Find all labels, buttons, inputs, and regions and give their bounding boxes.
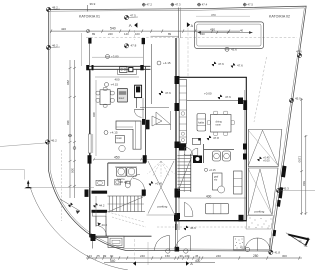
svg-text:240: 240: [140, 254, 145, 258]
survey marker west 47.5: [46, 44, 60, 50]
dim 400 inside house01: [95, 76, 139, 78]
pool lane arrow: [198, 32, 253, 34]
svg-text:KATOIKIA 01: KATOIKIA 01: [79, 15, 100, 19]
marker near terrace right: [124, 43, 136, 48]
svg-text:44.0: 44.0: [102, 223, 108, 227]
section arrow A top house02: [187, 22, 190, 27]
interior wall bath: [108, 162, 146, 164]
black wall band hall: [92, 210, 108, 213]
svg-text:400: 400: [195, 259, 201, 263]
door arc pantry: [134, 109, 144, 111]
dashed canopy house01: [108, 212, 146, 227]
south wall columns house02: [174, 215, 179, 222]
divider columns: [175, 76, 180, 84]
pool dim ticks: [217, 31, 219, 34]
wc door arc house01: [133, 179, 145, 191]
south boundary wall circles: [166, 249, 170, 253]
svg-text:47.6: 47.6: [218, 62, 224, 66]
svg-text:KATOIKIA 02: KATOIKIA 02: [269, 14, 290, 18]
section arrow A bottom house02: [186, 261, 189, 266]
svg-text:240: 240: [200, 32, 205, 36]
right dim lines: [301, 98, 303, 215]
svg-text:41.8: 41.8: [275, 250, 281, 254]
svg-text:+0.45: +0.45: [155, 182, 163, 186]
stairs house02: [178, 156, 191, 191]
house01 left wall: [89, 69, 91, 134]
svg-text:400: 400: [206, 195, 212, 199]
NE column living: [146, 120, 150, 130]
stairs house01: [109, 196, 141, 212]
dashed canopy line south: [157, 226, 250, 228]
svg-text:47.2: 47.2: [147, 3, 153, 7]
black wall segment on boundary: [281, 166, 287, 178]
black appliance house02: [179, 144, 186, 151]
svg-text:47.6: 47.6: [225, 95, 231, 99]
street kerb arc: [30, 187, 128, 270]
svg-text:300: 300: [70, 168, 74, 173]
svg-text:300: 300: [282, 254, 287, 258]
house01 left window: [89, 134, 92, 153]
stipple ramp: [249, 218, 273, 229]
kitchen counters house02: [179, 80, 186, 144]
tv table house01: [116, 135, 125, 143]
street lamp: [0, 170, 25, 180]
svg-text:+3.80: +3.80: [111, 55, 119, 59]
svg-text:47.8: 47.8: [131, 43, 137, 47]
svg-text:540: 540: [110, 259, 116, 263]
house01 top wall: [88, 65, 151, 67]
markers house02: [212, 62, 224, 66]
dim 450 living: [93, 158, 143, 160]
pantry corridor walls: [136, 98, 138, 108]
svg-text:470: 470: [210, 27, 215, 31]
marker side passage: [157, 61, 171, 65]
svg-text:parking: parking: [255, 210, 265, 214]
marker mid house02: [207, 136, 219, 140]
dining chair bottom: [103, 104, 107, 107]
marker south: [184, 226, 196, 230]
terrace column right: [142, 38, 145, 44]
svg-text:89: 89: [103, 254, 107, 258]
svg-text:+0.00: +0.00: [263, 159, 270, 163]
closet under stairs: [92, 213, 106, 216]
party wall divider: [175, 38, 177, 230]
dashed parking street line: [61, 150, 63, 221]
shower house02: [193, 156, 202, 164]
survey marker right slant top: [296, 50, 302, 58]
house02 right wall: [245, 77, 247, 221]
svg-text:90: 90: [110, 254, 114, 258]
survey marker west low: [0, 139, 57, 147]
fridge house01: [135, 85, 142, 97]
boundary divider fence between plots: [178, 8, 180, 39]
marker right slant low: [276, 187, 315, 193]
column left mid: [88, 155, 92, 163]
terrace column left: [88, 38, 91, 44]
entrance door arc house01: [96, 226, 107, 237]
svg-text:100: 100: [135, 32, 140, 36]
L sofa house01: [116, 121, 141, 149]
porch steps house01: [108, 236, 124, 247]
site boundary inner: [50, 8, 304, 250]
svg-text:43.6: 43.6: [231, 48, 237, 52]
dining chairs left: [96, 91, 100, 95]
house01 kitchen counter: [118, 69, 137, 74]
parking3 strip: [147, 158, 177, 160]
svg-text:420: 420: [61, 27, 66, 31]
survey marker top-left corner: [46, 6, 60, 12]
threshold triangles: [152, 116, 162, 126]
dim 400 house02: [178, 197, 246, 199]
pool outer: [195, 22, 264, 49]
svg-text:540: 540: [110, 27, 116, 31]
house01 top-left columns: [86, 65, 89, 70]
twin basins house01: [117, 168, 127, 177]
column right stairs: [142, 190, 146, 196]
survey marker top-right: [243, 2, 253, 6]
parking area 2: [248, 168, 278, 215]
svg-text:47.6: 47.6: [296, 50, 302, 54]
svg-text:+4.15: +4.15: [163, 61, 171, 65]
svg-text:89: 89: [92, 32, 96, 36]
svg-text:kathis: kathis: [198, 122, 205, 125]
wardrobe house02: [234, 171, 243, 194]
terrace spot marker: [106, 55, 119, 59]
house02 south wall: [174, 220, 247, 222]
svg-text:280: 280: [253, 254, 259, 258]
svg-text:150: 150: [165, 254, 170, 258]
svg-text:parking: parking: [158, 205, 168, 209]
svg-text:47.5: 47.5: [248, 2, 254, 6]
svg-text:860: 860: [302, 181, 306, 186]
dashed setback line: [86, 37, 297, 39]
svg-text:44.2: 44.2: [99, 203, 105, 207]
svg-text:A: A: [129, 23, 132, 28]
svg-text:45.9: 45.9: [295, 97, 301, 101]
bottom dim line main: [86, 257, 302, 259]
svg-text:+0.00: +0.00: [204, 92, 212, 96]
svg-text:450: 450: [114, 155, 120, 159]
gate arc 2: [175, 236, 190, 251]
wc cubicle house02: [192, 138, 200, 144]
slope arrow street: [60, 199, 80, 211]
terrace mid line: [92, 56, 143, 58]
side passage line house01 east: [151, 44, 153, 104]
marker right slant mid: [289, 97, 301, 103]
svg-text:47.4: 47.4: [202, 2, 208, 6]
svg-text:46.2: 46.2: [51, 139, 57, 143]
left wall house02 low: [175, 198, 177, 215]
bench house02: [206, 204, 229, 214]
basin counter house01: [115, 166, 137, 168]
svg-text:89: 89: [168, 32, 172, 36]
north arrow: [288, 234, 309, 246]
pool drain marker: [225, 47, 229, 51]
section trace house01: [134, 30, 136, 40]
cabinet house02 living: [197, 114, 206, 132]
svg-text:45: 45: [195, 254, 199, 258]
veranda edge house02: [187, 99, 246, 101]
dining chair top: [103, 87, 107, 90]
svg-text:47.3: 47.3: [175, 2, 181, 6]
side yard north fence: [151, 35, 179, 37]
site boundary outer: [48, 6, 306, 251]
svg-text:41.9: 41.9: [240, 246, 246, 250]
marker at stairs: [93, 203, 105, 207]
bath wall house02: [203, 144, 205, 163]
svg-text:dining: dining: [216, 122, 223, 124]
svg-text:45.6: 45.6: [190, 226, 196, 230]
svg-text:1150: 1150: [298, 156, 302, 163]
svg-text:240: 240: [108, 32, 113, 36]
dotted planter: [234, 237, 245, 251]
svg-text:140: 140: [124, 32, 129, 36]
svg-text:300: 300: [92, 112, 96, 117]
top dimension line: [51, 30, 241, 32]
svg-text:kouz: kouz: [119, 96, 125, 100]
marker bed area: [204, 168, 216, 172]
svg-text:240: 240: [216, 254, 221, 258]
svg-text:123: 123: [87, 254, 92, 258]
svg-text:+4.15: +4.15: [111, 83, 119, 87]
hall walls house01: [95, 216, 97, 226]
pool inner: [197, 24, 261, 46]
wc fixtures house01: [96, 180, 105, 185]
top boundary tick 2: [142, 3, 146, 7]
svg-text:+4.15: +4.15: [110, 131, 118, 135]
dining table house01: [100, 90, 110, 105]
svg-text:48.2: 48.2: [52, 6, 58, 10]
yard gate triangle: [156, 112, 171, 125]
top boundary tick 1: [87, 5, 89, 12]
house01 south wall: [90, 235, 152, 237]
section arrow A bottom house01: [133, 261, 136, 266]
svg-text:tzaki: tzaki: [117, 137, 122, 140]
survey marker at 126,17: [124, 14, 138, 20]
bath door arc house01: [130, 175, 141, 185]
desk house02: [213, 173, 223, 190]
dining chairs right: [111, 91, 115, 95]
svg-text:130: 130: [185, 254, 190, 258]
svg-text:40: 40: [240, 29, 244, 33]
gate arc 1: [155, 236, 170, 251]
vertical dim line at house01 left: [95, 80, 97, 156]
parking area 1: [248, 130, 281, 167]
svg-text:47.8: 47.8: [213, 136, 219, 140]
canopy fan dashes: [148, 161, 175, 177]
svg-text:47.5: 47.5: [130, 14, 136, 18]
dashed setback diagonal right: [254, 57, 267, 122]
marker in kitchen: [105, 83, 119, 87]
kitchen island house01: [118, 89, 128, 103]
house01 top-right column: [140, 65, 143, 70]
twin basins house02: [213, 151, 221, 161]
section trace house02: [187, 28, 189, 76]
divider wall to gate: [174, 224, 176, 251]
svg-text:47.6: 47.6: [237, 64, 243, 68]
dining table house02: [211, 115, 232, 133]
svg-text:30: 30: [180, 254, 184, 258]
svg-text:room: room: [216, 123, 221, 126]
svg-text:470: 470: [211, 13, 216, 17]
svg-text:45.3: 45.3: [283, 187, 289, 191]
terrace side lines: [89, 44, 91, 67]
house02 right columns: [243, 100, 247, 110]
svg-text:290: 290: [66, 80, 70, 85]
svg-text:400: 400: [115, 77, 120, 81]
section arrow A top house01: [134, 23, 137, 28]
double gate parking: [245, 238, 258, 251]
bath door arcs house02: [185, 147, 193, 155]
column left stairs: [85, 190, 89, 197]
pool dim label line: [196, 15, 250, 17]
marker side passage 2: [159, 91, 171, 95]
svg-text:460: 460: [66, 120, 70, 125]
sw column house01: [91, 234, 96, 241]
svg-text:47.6: 47.6: [165, 91, 171, 95]
door arc house02 south: [184, 202, 193, 216]
column right mid: [143, 155, 147, 162]
bottom dim line 2: [104, 262, 215, 264]
yard step line: [140, 106, 169, 108]
house02 top wall: [179, 76, 247, 78]
svg-text:46.2: 46.2: [52, 44, 58, 48]
marker living: [104, 131, 118, 135]
black wall band wc: [92, 191, 108, 194]
svg-text:+0.15: +0.15: [209, 168, 216, 172]
west dim lines: [69, 60, 71, 198]
svg-text:36.9: 36.9: [90, 2, 96, 6]
entrance marker: [98, 223, 102, 227]
svg-text:75: 75: [97, 254, 101, 258]
